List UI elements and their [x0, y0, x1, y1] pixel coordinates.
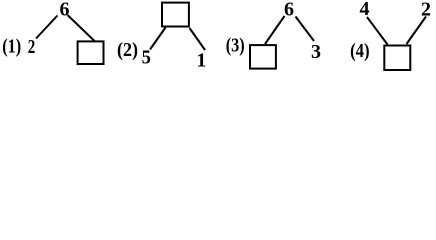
answer box 2	[162, 3, 189, 27]
line from answer box 2 to 5	[150, 28, 166, 50]
line from 6 to answer box 1	[68, 15, 95, 41]
svg-text:(2): (2)	[117, 39, 138, 61]
line from 6 to 3	[296, 17, 315, 42]
line from 6 to 2	[36, 16, 58, 39]
svg-text:3: 3	[311, 41, 321, 63]
line from 6 to answer box 3	[265, 16, 285, 44]
answer box 3	[250, 45, 276, 69]
line from answer box 2 to 1	[190, 28, 206, 50]
svg-text:(3): (3)	[226, 34, 245, 56]
line from 4 to answer box 4	[367, 17, 388, 45]
answer box 1	[78, 41, 104, 64]
svg-text:6: 6	[60, 0, 70, 21]
svg-text:(4): (4)	[350, 40, 370, 62]
svg-text:6: 6	[284, 0, 294, 20]
svg-text:1: 1	[196, 50, 206, 72]
answer box 4	[384, 46, 410, 71]
svg-text:(1): (1)	[2, 36, 21, 58]
svg-text:2: 2	[28, 36, 36, 58]
svg-text:5: 5	[142, 47, 151, 69]
line from 2 to answer box 4	[407, 17, 427, 45]
